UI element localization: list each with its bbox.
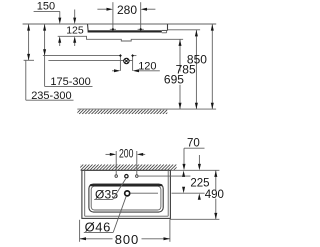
dimension 800 label [115, 232, 139, 247]
dimension 850 label [187, 52, 207, 66]
wire front reference line [170, 218, 220, 220]
svg-text:850: 850 [187, 52, 207, 66]
svg-text:125: 125 [66, 25, 84, 37]
wire faucet axis extension [140, 2, 142, 29]
node faucet hole marker (side view) [138, 28, 144, 31]
svg-text:280: 280 [117, 3, 137, 17]
dimension 235-300 line [24, 24, 34, 60]
bowl inner outline [91, 186, 161, 210]
floor hatching (side view) [73, 110, 174, 115]
basin inner rim line [85, 170, 169, 216]
basin side profile [88, 24, 168, 33]
label Ø35 [94, 187, 118, 201]
wire drain level line (235-300) [48, 59, 133, 61]
dimension 850 line [211, 24, 214, 109]
node cold supply connection [131, 54, 134, 57]
dimension 490 label [205, 189, 224, 201]
node hot supply connection [119, 54, 122, 57]
wire 785 reference line [168, 29, 201, 31]
svg-text:800: 800 [115, 232, 139, 247]
svg-text:70: 70 [187, 137, 200, 149]
wire 800 left extension [79, 220, 81, 242]
wire faucet centre line [138, 175, 190, 177]
wire drain axis extension [112, 2, 114, 29]
wire under-basin line (695/725 level) [58, 36, 183, 41]
wall hatching (plan view) [75, 164, 186, 170]
dimension 70 leader [183, 148, 205, 170]
svg-text:200: 200 [119, 149, 134, 161]
wire hot supply drop [119, 56, 121, 71]
dimension 125 label [66, 25, 84, 37]
dimension 800 line [80, 237, 170, 240]
node drain hole marker (side view) [110, 28, 116, 31]
dimension 785 label [176, 62, 196, 76]
svg-text:225: 225 [190, 177, 209, 189]
label Ø46 [84, 220, 113, 235]
bowl outer outline [89, 184, 163, 212]
right optional tap hole [136, 175, 139, 178]
node 150 position arrow [58, 36, 61, 46]
dimension 175-300 line [43, 24, 46, 86]
dimension 695 label [164, 72, 184, 86]
wire right tap-hole drop [136, 151, 138, 175]
label Ø35 leader [113, 179, 126, 200]
bowl back edge thick band [91, 184, 162, 186]
svg-text:120: 120 [138, 61, 156, 73]
basin outer outline [82, 170, 170, 218]
wire rim reference line (850 level) [23, 23, 217, 25]
faucet hole Ø35 [125, 175, 128, 178]
floor line (side view) [77, 108, 216, 110]
dimension 200 label [119, 149, 134, 161]
svg-text:150: 150 [37, 1, 55, 13]
wire supply level line (175-300) [43, 55, 136, 57]
drain hole Ø46 [125, 191, 130, 196]
dimension 175-300 label [45, 76, 93, 88]
dimension 235-300 label [26, 90, 74, 102]
dimension 280 arrows [97, 8, 155, 11]
drain connection symbol [124, 58, 129, 63]
dimension 150 leader [34, 11, 62, 24]
dimension 200 arrows [106, 153, 146, 156]
dimension 70 label [187, 137, 200, 149]
wire left tap-hole drop [115, 151, 117, 175]
wall line (plan view) [81, 169, 220, 171]
wire bowl centre line [130, 192, 204, 194]
svg-text:490: 490 [205, 189, 224, 201]
node bowl centre arrow [198, 193, 201, 199]
dimension 125 arrows [73, 10, 76, 47]
dimension 490 line [214, 170, 217, 219]
dimension 120 arrows [112, 69, 160, 72]
dimension 225 line [182, 171, 185, 194]
dimension 225 label [190, 177, 209, 189]
wire 800 right extension [169, 219, 171, 242]
dimension 785 line [195, 30, 198, 109]
dimension 120 label [138, 61, 156, 73]
wire cold supply drop [132, 56, 134, 71]
label Ø46 leader [113, 196, 126, 232]
dimension 235-300 leader [25, 60, 27, 100]
dimension 150 label [37, 1, 55, 13]
dimension 280 label [117, 3, 137, 17]
dimension 695 line [179, 39, 182, 109]
left optional tap hole [115, 175, 118, 178]
